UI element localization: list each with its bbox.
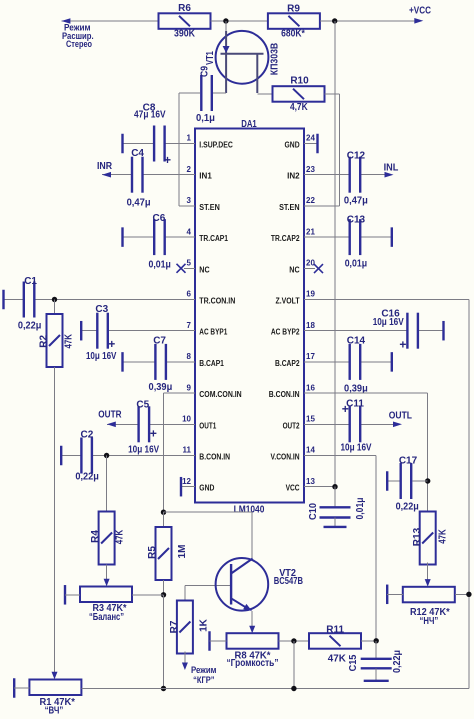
svg-text:47K: 47K [63,333,74,348]
svg-text:6: 6 [187,290,192,299]
svg-text:V.CON.IN: V.CON.IN [271,453,300,462]
svg-text:47μ 16V: 47μ 16V [134,110,166,121]
svg-text:КП303В: КП303В [270,43,281,76]
svg-text:C4: C4 [131,148,144,159]
svg-text:I.SUP.DEC: I.SUP.DEC [199,141,233,150]
svg-text:TR.CAP1: TR.CAP1 [199,234,228,243]
svg-text:15: 15 [306,415,315,424]
svg-text:INL: INL [384,162,399,173]
svg-text:INR: INR [97,161,113,172]
svg-text:NC: NC [199,265,209,274]
svg-text:GND: GND [199,484,214,493]
svg-text:+: + [164,153,171,167]
svg-text:VT1: VT1 [205,51,216,65]
svg-text:10: 10 [182,415,191,424]
svg-text:IN1: IN1 [199,172,212,181]
svg-text:0,01μ: 0,01μ [345,259,367,270]
svg-text:47K: 47K [437,529,448,544]
svg-text:0,22μ: 0,22μ [396,502,419,513]
svg-text:10μ 16V: 10μ 16V [373,317,404,328]
svg-text:+VCC: +VCC [409,6,431,17]
svg-text:24: 24 [306,134,315,143]
svg-text:5: 5 [187,259,192,268]
svg-text:GND: GND [285,141,300,150]
svg-text:VCC: VCC [286,484,300,493]
svg-text:12: 12 [182,477,191,486]
svg-text:C17: C17 [399,456,418,467]
svg-text:390K: 390K [174,29,196,40]
svg-text:ST.EN: ST.EN [279,203,300,212]
svg-text:TR.CAP2: TR.CAP2 [271,234,300,243]
svg-text:“НЧ”: “НЧ” [420,616,439,627]
svg-text:AC BYP1: AC BYP1 [199,328,227,337]
svg-text:B.CON.IN: B.CON.IN [269,390,300,399]
svg-text:C14: C14 [347,336,366,347]
svg-text:NC: NC [289,265,299,274]
svg-text:C12: C12 [347,151,366,162]
svg-text:“Баланс”: “Баланс” [89,612,124,623]
svg-text:21: 21 [306,227,315,236]
svg-text:C6: C6 [153,213,166,224]
svg-text:10μ 16V: 10μ 16V [341,443,372,454]
svg-text:0,01μ: 0,01μ [355,498,366,520]
svg-text:+: + [399,338,406,352]
svg-text:8: 8 [187,352,192,361]
svg-text:1M: 1M [177,545,188,559]
svg-text:“КГР”: “КГР” [193,675,215,686]
svg-text:14: 14 [306,446,315,455]
svg-text:R2: R2 [38,334,49,347]
svg-text:1: 1 [187,134,192,143]
svg-text:“ВЧ”: “ВЧ” [45,705,64,716]
svg-text:13: 13 [306,477,315,486]
svg-text:18: 18 [306,321,315,330]
svg-text:19: 19 [306,290,315,299]
svg-text:47K: 47K [328,653,347,664]
svg-text:22: 22 [306,196,315,205]
svg-text:+: + [150,427,157,441]
svg-text:C10: C10 [308,503,319,520]
svg-text:ST.EN: ST.EN [199,203,220,212]
svg-text:20: 20 [306,259,315,268]
svg-text:3: 3 [187,196,192,205]
svg-text:R6: R6 [178,3,191,14]
svg-text:Z.VOLT: Z.VOLT [276,297,300,306]
svg-text:“Громкость”: “Громкость” [227,658,279,669]
svg-text:10μ 16V: 10μ 16V [86,351,117,362]
svg-text:IN2: IN2 [287,172,300,181]
svg-text:C3: C3 [95,304,108,315]
svg-text:4: 4 [187,227,192,236]
svg-text:9: 9 [187,383,192,392]
svg-text:1K: 1K [198,618,209,632]
svg-text:680K*: 680K* [281,28,305,39]
svg-text:0,1μ: 0,1μ [196,113,215,124]
svg-text:R13: R13 [412,527,423,546]
svg-text:B.CON.IN: B.CON.IN [199,453,230,462]
svg-text:TR.CON.IN: TR.CON.IN [199,297,235,306]
svg-text:COM.CON.IN: COM.CON.IN [199,390,242,399]
svg-text:0,22μ: 0,22μ [75,472,99,483]
svg-text:OUTR: OUTR [98,409,122,420]
svg-text:+: + [108,337,115,351]
svg-text:Стерео: Стерео [66,39,92,50]
svg-text:0,22μ: 0,22μ [392,650,403,673]
svg-text:C1: C1 [24,276,37,287]
svg-text:0,22μ: 0,22μ [18,321,42,332]
svg-text:11: 11 [183,446,192,455]
svg-text:23: 23 [306,165,315,174]
svg-text:R11: R11 [326,625,344,636]
svg-text:C11: C11 [346,398,364,409]
svg-text:47K: 47K [114,529,125,544]
svg-text:OUT2: OUT2 [283,421,300,430]
svg-text:Режим: Режим [191,665,217,676]
svg-text:C15: C15 [348,654,359,671]
svg-text:R4: R4 [90,530,101,543]
svg-text:R9: R9 [287,3,300,14]
svg-text:+: + [342,402,349,416]
svg-text:17: 17 [306,352,315,361]
svg-text:C2: C2 [81,429,94,440]
svg-text:0,47μ: 0,47μ [344,195,368,206]
svg-text:R10: R10 [290,75,309,86]
svg-text:4,7K: 4,7K [290,102,308,113]
svg-text:10μ 16V: 10μ 16V [128,444,159,455]
svg-text:LM1040: LM1040 [234,505,265,516]
svg-text:7: 7 [187,321,192,330]
svg-text:C13: C13 [347,214,366,225]
svg-text:R7: R7 [169,620,180,633]
svg-text:C5: C5 [136,400,149,411]
svg-text:OUT1: OUT1 [199,421,216,430]
svg-text:2: 2 [187,165,192,174]
svg-text:16: 16 [306,383,315,392]
svg-text:B.CAP1: B.CAP1 [199,359,224,368]
svg-text:C7: C7 [153,335,166,346]
svg-text:R5: R5 [147,546,158,559]
svg-text:OUTL: OUTL [389,411,412,422]
svg-text:DA1: DA1 [241,119,257,130]
svg-text:AC BYP2: AC BYP2 [271,328,300,337]
svg-text:0,01μ: 0,01μ [149,259,171,270]
svg-text:0,39μ: 0,39μ [149,382,173,393]
svg-text:BC547B: BC547B [274,576,303,587]
svg-text:0,47μ: 0,47μ [127,198,151,209]
svg-text:B.CAP2: B.CAP2 [275,359,300,368]
svg-text:C9: C9 [200,66,211,77]
